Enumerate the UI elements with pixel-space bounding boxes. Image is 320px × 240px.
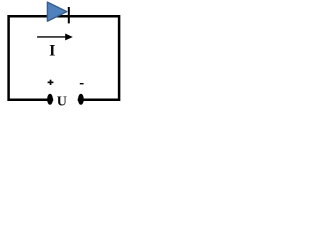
- source U positive terminal dot: [47, 94, 53, 105]
- wire loop: [9, 16, 120, 100]
- svg-text:U: U: [57, 95, 67, 110]
- minus terminal label: [80, 83, 84, 84]
- current direction arrow: [37, 34, 73, 41]
- voltage source gap: [53, 96, 77, 105]
- diode D anode triangle: [47, 2, 66, 21]
- source U negative terminal dot: [78, 94, 84, 105]
- svg-text:I: I: [49, 43, 55, 60]
- plus terminal label: [48, 80, 54, 85]
- diode D cathode bar: [68, 7, 70, 23]
